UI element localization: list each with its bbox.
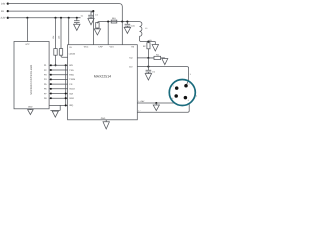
wire DO to connector (137, 67, 188, 85)
svg-text:RXD: RXD (69, 74, 74, 77)
svg-text:P6: P6 (44, 88, 47, 91)
node junction R1 to bus (54, 64, 56, 66)
node junction V24 wire to 24V rail (121, 21, 123, 23)
wire CQ (137, 57, 154, 59)
node junction L+ (155, 102, 157, 104)
svg-text:SDO: SDO (69, 97, 74, 100)
node junction rail3 to MCU (26, 17, 28, 19)
wire bus row5 (49, 83, 68, 85)
U1 top pin labels (69, 46, 135, 56)
node 5V rail terminal dot (7, 10, 9, 12)
ferrite bead FB1 (111, 20, 117, 23)
svg-text:MICROCONTROLLER: MICROCONTROLLER (30, 64, 33, 94)
rail labels (1, 2, 6, 19)
connector pin numbers (172, 82, 189, 102)
IC U1 MAX22514 box (68, 45, 138, 120)
svg-text:CS: CS (69, 83, 73, 86)
svg-text:V24: V24 (110, 46, 115, 49)
wire bus row8 (49, 97, 68, 99)
svg-text:1: 1 (190, 73, 192, 76)
node junction rail3 R1 (54, 17, 56, 19)
svg-text:CAP: CAP (98, 46, 103, 49)
svg-text:P2: P2 (44, 69, 47, 72)
wire bus row6 (49, 88, 68, 90)
connector J1 M12 circle (169, 80, 195, 106)
wire bus row10 GND net (49, 104, 68, 106)
ground under C3 (124, 27, 130, 33)
svg-text:L1: L1 (145, 27, 148, 30)
svg-text:C5: C5 (152, 71, 155, 74)
node junction gnd vertical end (65, 104, 67, 106)
wire bus row4 (49, 78, 68, 80)
svg-text:DO: DO (129, 65, 133, 68)
wire rail3 to VL pin (68, 18, 70, 45)
node MCU pin dot row4 (50, 79, 52, 81)
node junction rail3 R2 (60, 17, 62, 19)
wire L- (137, 104, 189, 113)
resistor R3 (V24 bleed) (96, 23, 99, 29)
wire bus row1 (49, 64, 68, 66)
svg-text:RP: RP (143, 45, 146, 48)
node MCU pin dot row1 (50, 64, 52, 66)
wire V24 pin stub (121, 22, 123, 45)
node 3.3V rail terminal dot (7, 17, 9, 19)
node MCU pin dot row7 (50, 93, 52, 95)
capacitor C2 (5V rail bypass) (92, 10, 94, 12)
resistor R1 (55, 18, 57, 49)
inductor L1 (140, 22, 142, 37)
ground under 24V node (152, 45, 158, 52)
svg-text:1: 1 (173, 85, 174, 88)
ground under R3 (94, 29, 100, 35)
wire bus row7 (49, 93, 68, 95)
ground under L+ wire (153, 103, 159, 111)
svg-text:C24: C24 (131, 24, 136, 27)
svg-text:GND: GND (28, 106, 33, 109)
svg-text:V5: V5 (131, 46, 134, 49)
connector pin 3 (174, 94, 178, 98)
wire ground drop (65, 65, 67, 105)
wire gnd drop (50, 105, 60, 110)
svg-text:IRQ: IRQ (69, 104, 73, 107)
ground under C2 (88, 19, 94, 25)
wire V24 node (97, 22, 139, 24)
ground under C1 (74, 24, 80, 30)
svg-text:MAX22514: MAX22514 (94, 75, 111, 79)
svg-text:P4: P4 (44, 78, 47, 81)
svg-text:TXD: TXD (69, 69, 74, 72)
resistor R4 (CQ series) (154, 56, 161, 59)
node MCU pin dot row6 (50, 88, 52, 90)
wire 24V rail (8, 4, 123, 22)
svg-text:2: 2 (189, 82, 190, 85)
wire rail3 to MCU VDD pin (26, 18, 28, 42)
svg-text:SDI: SDI (69, 92, 73, 95)
resistor R2 (60, 18, 62, 49)
svg-text:TXEN: TXEN (69, 78, 75, 81)
svg-text:SCLK: SCLK (69, 88, 75, 91)
svg-text:24V: 24V (1, 2, 6, 5)
svg-text:FB1: FB1 (112, 17, 117, 20)
capacitor C3 (V24 bypass) (126, 21, 128, 23)
wire CAP pin stub (107, 22, 109, 45)
node junction V24 wire to CAP pin (107, 21, 109, 23)
node MCU pin dot row2 (50, 69, 52, 71)
node 24V rail terminal dot (7, 2, 9, 4)
svg-text:3.3V: 3.3V (1, 16, 6, 19)
svg-text:C1: C1 (81, 15, 83, 18)
svg-text:4: 4 (188, 99, 189, 102)
capacitor C5 (CQ line) (146, 58, 152, 74)
svg-text:VCC: VCC (25, 43, 30, 46)
MCU right pin labels (44, 64, 47, 100)
node junction CQ (147, 57, 149, 59)
node junction row7 to ground drop (65, 92, 67, 94)
node junction ground drop top (65, 64, 67, 66)
wire 3.3V rail (8, 17, 81, 19)
svg-text:VCC: VCC (84, 46, 89, 49)
connector pin 4 (184, 96, 188, 100)
U1 left pin labels (69, 64, 75, 107)
svg-text:P8: P8 (44, 97, 47, 100)
svg-text:10k: 10k (58, 36, 61, 39)
svg-text:VL: VL (69, 46, 72, 49)
svg-text:WU: WU (69, 64, 73, 67)
node junction rail3 VL (68, 17, 70, 19)
ground under C5 (145, 74, 151, 81)
node MCU pin dot row5 (50, 83, 52, 85)
connector pin 1 (175, 86, 179, 90)
svg-text:P3: P3 (44, 74, 47, 77)
wire L1 to CQ network (140, 36, 156, 41)
wire bus row2 (49, 69, 68, 71)
svg-text:CQ: CQ (129, 57, 133, 60)
node junction DO (147, 66, 149, 68)
ground on CQ line (162, 58, 168, 65)
ground left bottom (52, 111, 58, 117)
ground stub on 24V node (154, 42, 156, 45)
svg-text:10k: 10k (52, 36, 55, 39)
MCU U2 box (14, 42, 49, 109)
capacitor C1 (3.3V rail bypass) (74, 18, 80, 24)
U1 right pin labels (129, 57, 133, 69)
connector pin 2 (184, 84, 188, 88)
resistor RP (CQ pullup) (147, 42, 149, 43)
wire 5V rail (8, 11, 94, 45)
svg-text:5V: 5V (1, 10, 4, 13)
ground under MCU (28, 109, 34, 115)
ground under U1 (103, 120, 109, 129)
svg-text:P5: P5 (44, 83, 47, 86)
node junction row8 to ground drop (65, 97, 67, 99)
svg-text:LDO33: LDO33 (69, 53, 76, 56)
svg-text:GND: GND (101, 117, 106, 120)
node MCU pin dot row3 (50, 74, 52, 76)
wire L+ (137, 102, 174, 104)
svg-text:3: 3 (172, 97, 173, 100)
wire bus row3 (49, 74, 68, 76)
svg-text:C2: C2 (95, 13, 98, 16)
node junction rail3 cap (76, 17, 78, 19)
node junction RP top (147, 40, 149, 42)
wire CQ after resistor (148, 57, 164, 59)
svg-text:P1: P1 (44, 64, 47, 67)
node MCU pin dot row8 (50, 97, 52, 99)
svg-text:1: 1 (196, 95, 198, 98)
svg-text:P7: P7 (44, 92, 47, 95)
